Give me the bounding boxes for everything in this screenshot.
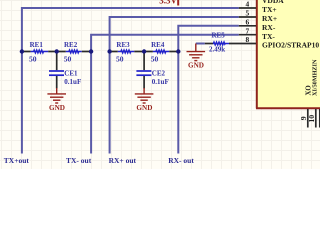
resistor RE5	[196, 32, 229, 54]
svg-text:TX- out: TX- out	[66, 156, 92, 165]
svg-text:10: 10	[307, 115, 316, 123]
wire RX+ out net: vertical + horizontal to pin 5	[110, 17, 239, 154]
resistor RE4	[144, 41, 179, 64]
svg-text:6: 6	[246, 17, 250, 26]
svg-text:RE5: RE5	[212, 32, 226, 40]
junction node E (RE4 right / RX- out)	[176, 49, 180, 53]
IC pin 9 line (bottom)	[307, 109, 309, 128]
IC pin 10 line (bottom)	[315, 109, 317, 128]
svg-text:TX+out: TX+out	[4, 156, 30, 165]
wire RX- out net: vertical + horizontal to pin 6	[178, 26, 239, 154]
junction node A (RE1/RE2/CE1)	[55, 49, 59, 53]
ground GND3 (at RE5)	[187, 44, 206, 70]
svg-text:GND: GND	[188, 61, 204, 69]
svg-text:RX-: RX-	[262, 23, 276, 32]
capacitor CE2	[136, 52, 168, 89]
IC pin 11 line (edge sliver)	[319, 109, 320, 128]
capacitor CE1	[49, 52, 81, 89]
IC pin 5 line	[239, 16, 256, 18]
ground GND2 (under CE2)	[135, 88, 154, 112]
IC pin 4 line	[239, 7, 256, 9]
svg-text:RX+: RX+	[262, 14, 277, 23]
svg-text:GND: GND	[49, 104, 65, 112]
junction node at RE1 left	[20, 49, 24, 53]
junction node C (RE3 left / RX+ out)	[107, 49, 111, 53]
svg-text:4: 4	[246, 0, 250, 9]
svg-text:5: 5	[246, 9, 250, 18]
svg-text:7: 7	[246, 26, 250, 35]
power port 3.3V (bar, cut off at top)	[159, 0, 178, 6]
svg-text:GND: GND	[136, 104, 152, 112]
svg-text:RE3: RE3	[116, 41, 130, 49]
svg-text:RE4: RE4	[151, 41, 165, 49]
svg-text:8: 8	[246, 35, 250, 44]
svg-text:TX+: TX+	[262, 5, 277, 14]
svg-text:50: 50	[151, 54, 159, 63]
IC pin 8 line	[229, 43, 256, 45]
svg-text:CE1: CE1	[64, 69, 78, 77]
svg-text:RX- out: RX- out	[168, 156, 194, 165]
svg-text:50: 50	[64, 54, 72, 63]
svg-text:GPIO2/STRAP10: GPIO2/STRAP10	[262, 41, 319, 50]
IC pin 7 line	[239, 34, 256, 36]
svg-text:0.1uF: 0.1uF	[64, 78, 81, 86]
svg-text:2.49k: 2.49k	[209, 45, 225, 53]
svg-text:50: 50	[116, 54, 124, 63]
junction node D (RE3/RE4/CE2)	[142, 49, 146, 53]
svg-text:RX+ out: RX+ out	[109, 156, 137, 165]
svg-text:RE1: RE1	[30, 41, 44, 49]
resistor RE2	[57, 41, 91, 64]
svg-text:TX-: TX-	[262, 32, 275, 41]
junction node B (RE2 right / TX- out)	[89, 49, 93, 53]
svg-text:XI/50MHZIN: XI/50MHZIN	[312, 59, 319, 96]
wire TX+out net: vertical + top horizontal to pin 4	[22, 8, 239, 154]
svg-text:3.3V: 3.3V	[159, 0, 177, 5]
svg-text:CE2: CE2	[152, 69, 166, 77]
IC U1 body (yellow rectangle, partially off right edge)	[256, 0, 320, 108]
resistor RE3	[110, 41, 144, 64]
wire TX- out net: vertical up from node + horizontal to pin 7	[91, 35, 239, 154]
ground GND1 (under CE1)	[47, 88, 66, 112]
svg-text:RE2: RE2	[64, 41, 78, 49]
svg-text:50: 50	[29, 54, 37, 63]
svg-text:0.1uF: 0.1uF	[152, 78, 169, 86]
IC pin 6 line	[239, 25, 256, 27]
resistor RE1	[22, 41, 57, 64]
